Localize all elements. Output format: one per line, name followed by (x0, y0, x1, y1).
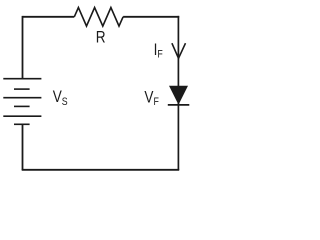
wire right vertical (177, 16, 179, 170)
battery V_S plate long 3 (3, 115, 41, 117)
current arrow IF head (172, 43, 186, 58)
svg-text:IF: IF (154, 41, 163, 61)
svg-text:VF: VF (144, 88, 158, 108)
wire bottom (22, 169, 180, 171)
svg-text:VS: VS (53, 88, 68, 108)
svg-text:R: R (96, 28, 106, 47)
wire top-left segment (23, 16, 75, 18)
diode D1 triangle (169, 86, 188, 105)
label VS (53, 88, 68, 108)
battery V_S plate long 2 (3, 97, 41, 99)
wire left upper vertical (22, 16, 24, 79)
battery V_S plate short 1 (14, 88, 30, 90)
label IF (154, 41, 163, 61)
battery V_S plate short 2 (14, 105, 30, 107)
wire top-right segment (123, 16, 179, 18)
resistor R1 zigzag (74, 8, 123, 27)
battery V_S plate long 1 (3, 78, 41, 80)
battery V_S plate short 3 (14, 123, 30, 125)
diode D1 cathode bar (168, 104, 190, 106)
wire left lower vertical (22, 124, 24, 170)
label VF (144, 88, 158, 108)
label R (96, 28, 106, 47)
